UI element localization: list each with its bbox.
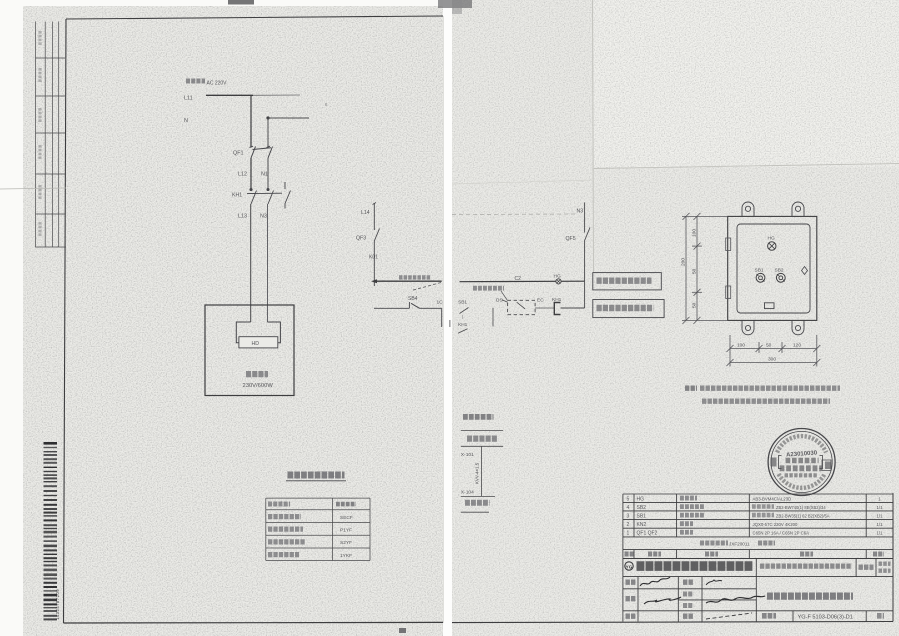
- dashed box: [508, 300, 535, 314]
- project name: [760, 563, 852, 568]
- heater label: [246, 371, 268, 377]
- svg-text:14324787209: 14324787209: [55, 589, 60, 620]
- function label box 2: [593, 300, 664, 318]
- svg-text:AB3-BVM4C/AL23D: AB3-BVM4C/AL23D: [753, 496, 792, 501]
- wire coil to N: [561, 307, 585, 309]
- svg-text:JXF20011: JXF20011: [729, 542, 750, 547]
- signature scribble 1: [640, 577, 670, 586]
- svg-text:SB2: SB2: [637, 505, 647, 511]
- note: source label AC 220V: [186, 79, 205, 84]
- svg-text:HD: HD: [252, 341, 260, 347]
- BOM table grid: [623, 494, 893, 558]
- heater element upper bracket: [236, 322, 280, 343]
- left sheet frame border: [66, 16, 443, 19]
- dashed crease on circuit: [452, 213, 576, 216]
- cable dest label: [465, 500, 490, 506]
- seam shadow: [443, 0, 452, 636]
- function label box 1: [593, 273, 662, 290]
- horizontal dimension lines: [727, 335, 821, 367]
- svg-text:L13: L13: [238, 214, 247, 220]
- svg-text:HG: HG: [768, 236, 775, 242]
- svg-text:YG-F 5103-D06(3)-D1: YG-F 5103-D06(3)-D1: [798, 615, 853, 621]
- svg-text:SB1: SB1: [755, 268, 764, 274]
- cable line: [481, 446, 483, 496]
- vertical dimension lines: [682, 213, 728, 324]
- top edge smudges: [228, 0, 254, 5]
- signature scribble 3: [706, 580, 722, 585]
- company logo: [625, 562, 633, 570]
- cable source box: [467, 436, 497, 442]
- svg-text:120: 120: [793, 343, 801, 349]
- bottom cutout rect: [765, 303, 775, 309]
- company name: [637, 561, 754, 571]
- left hinge tabs: [726, 238, 731, 251]
- svg-text:P1YF: P1YF: [340, 527, 352, 533]
- svg-text:KVV-4×1.5: KVV-4×1.5: [475, 462, 480, 484]
- svg-text:100: 100: [737, 343, 745, 349]
- svg-text:1/1: 1/1: [876, 513, 883, 518]
- bottom small mark: [399, 628, 406, 633]
- svg-text:N3: N3: [260, 214, 267, 220]
- svg-text:1/1: 1/1: [876, 505, 883, 510]
- svg-text:50: 50: [692, 268, 698, 274]
- notes line 1: [685, 386, 697, 391]
- crease line left: [0, 188, 66, 189]
- svg-text:SB1: SB1: [458, 300, 467, 306]
- svg-text:ZB2-BW740(1) 8E(XB2)/34: ZB2-BW740(1) 8E(XB2)/34: [776, 505, 826, 510]
- control wire to terminal, arrow left: [373, 280, 442, 282]
- label BC temperature controller: [473, 286, 504, 291]
- svg-text:DS: DS: [496, 298, 503, 304]
- svg-text:KH1: KH1: [232, 193, 242, 199]
- right frame right border: [892, 493, 894, 622]
- drawing number row: [762, 613, 776, 619]
- optional models table: [266, 498, 370, 560]
- svg-text:1YKF: 1YKF: [340, 553, 352, 559]
- short vertical below seam: [449, 320, 451, 327]
- svg-text:3: 3: [627, 513, 630, 519]
- stage cells: [859, 565, 874, 570]
- right sheet paper: [452, 0, 899, 636]
- wire N1: [267, 158, 269, 189]
- paper grain noise: [23, 6, 443, 636]
- svg-text:JQX0-57C 220V 4K200: JQX0-57C 220V 4K200: [753, 522, 799, 527]
- vertical under DS box: [492, 308, 494, 327]
- panel inner face: [737, 224, 810, 313]
- mounting tab bottom-right: [792, 320, 804, 334]
- wire N3 down: [584, 202, 586, 232]
- svg-text:SB1: SB1: [637, 513, 647, 519]
- right sheet fold creases: [593, 0, 594, 273]
- BOM merged note row: [700, 541, 728, 546]
- svg-text:L14: L14: [361, 210, 370, 216]
- svg-text:YG: YG: [626, 564, 633, 569]
- svg-text:L11: L11: [184, 96, 193, 102]
- svg-text:EC: EC: [537, 298, 544, 304]
- wire QF5 to line: [584, 241, 586, 282]
- label XP1 A/M: [399, 275, 431, 279]
- table rows text: [268, 502, 290, 507]
- wire N3 to heater: [267, 204, 269, 322]
- diamond mark: [802, 267, 808, 275]
- svg-text:QF1: QF1: [233, 151, 243, 157]
- svg-text:QF5: QF5: [566, 236, 576, 242]
- svg-text:C65N 2P 16A / C65N 2P C6A: C65N 2P 16A / C65N 2P C6A: [753, 530, 810, 535]
- svg-text:N3: N3: [577, 209, 584, 215]
- mounting tab top-right: [792, 202, 804, 216]
- svg-text:C2: C2: [515, 276, 522, 282]
- signature labels col A: [626, 580, 637, 585]
- panel outer box: [728, 216, 817, 320]
- right frame bottom border: [452, 622, 893, 623]
- linkage dashed diagonal: [412, 283, 442, 291]
- svg-text:HG: HG: [554, 274, 561, 280]
- svg-text:100: 100: [692, 229, 698, 237]
- title block grid: [623, 558, 893, 621]
- svg-text:KN2: KN2: [637, 522, 647, 528]
- drawing title: [767, 592, 853, 599]
- svg-text:300: 300: [768, 357, 776, 363]
- svg-text:1: 1: [627, 530, 630, 536]
- svg-text:1/1: 1/1: [876, 530, 883, 535]
- svg-text:SECF: SECF: [340, 515, 353, 521]
- svg-text:50: 50: [692, 302, 698, 308]
- svg-text:230V/600W: 230V/600W: [243, 383, 274, 389]
- svg-text:2: 2: [627, 522, 630, 528]
- wire L12: [250, 158, 252, 189]
- wire L11 drop to QF1: [250, 95, 252, 147]
- wire L13: [250, 204, 252, 322]
- svg-text:50: 50: [766, 343, 772, 349]
- svg-text:ZB2-BW35(1) 62 B2(XB2)/5A: ZB2-BW35(1) 62 B2(XB2)/5A: [776, 513, 830, 518]
- cable table title: [463, 414, 494, 420]
- svg-text:SB4: SB4: [408, 296, 418, 302]
- svg-text:HG: HG: [637, 496, 645, 502]
- svg-text:SB2: SB2: [775, 268, 784, 274]
- contact inside dashed box: [517, 302, 525, 309]
- binding strip cell text marks: [38, 31, 41, 45]
- binding strip table: [36, 22, 67, 248]
- heater enclosure box: [205, 305, 294, 396]
- wire L14: [373, 203, 375, 230]
- svg-text:X-101: X-101: [461, 452, 474, 458]
- wire L11 horizontal: [206, 94, 253, 96]
- svg-text:KH1: KH1: [458, 322, 468, 328]
- svg-text:AC 220V: AC 220V: [207, 81, 228, 87]
- signature scribble 2: [644, 597, 681, 604]
- signature labels col C: [683, 580, 694, 585]
- notes line 2: [702, 399, 830, 404]
- svg-text:K01: K01: [369, 255, 378, 261]
- leader line: [501, 291, 508, 301]
- svg-text:200: 200: [681, 258, 687, 266]
- control line C2: [460, 280, 585, 283]
- svg-text:5: 5: [627, 496, 630, 502]
- optional models table title: [288, 472, 345, 479]
- svg-text:L12: L12: [238, 172, 247, 178]
- left sheet paper: [23, 6, 443, 636]
- wire N horizontal: [266, 116, 269, 119]
- svg-text:1/1: 1/1: [876, 522, 883, 527]
- svg-text:QF3: QF3: [356, 236, 366, 242]
- mounting tab bottom-left: [742, 320, 754, 334]
- wire box to coil: [535, 307, 554, 309]
- heater element HD: [239, 337, 278, 348]
- svg-text:QF1 QF2: QF1 QF2: [637, 530, 658, 536]
- wire to K01: [373, 241, 375, 286]
- svg-text:1C: 1C: [437, 300, 444, 306]
- BOM header row: [625, 552, 634, 557]
- svg-text:4: 4: [627, 505, 630, 511]
- right sheet lighter top-right quadrant: [594, 0, 899, 167]
- svg-text:N: N: [184, 118, 188, 124]
- stamp grade brackets: [779, 456, 782, 469]
- wire N drop to QF1: [267, 118, 269, 148]
- svg-text:S2YF: S2YF: [340, 540, 352, 546]
- dashed slash bottom: [706, 613, 752, 619]
- mounting tab top-left: [742, 202, 754, 216]
- certification stamp: [768, 429, 835, 496]
- barcode sticker: [44, 442, 58, 620]
- signature scribble 4 long: [706, 596, 765, 603]
- svg-text:X-104: X-104: [461, 490, 474, 496]
- svg-text:N1: N1: [261, 172, 268, 178]
